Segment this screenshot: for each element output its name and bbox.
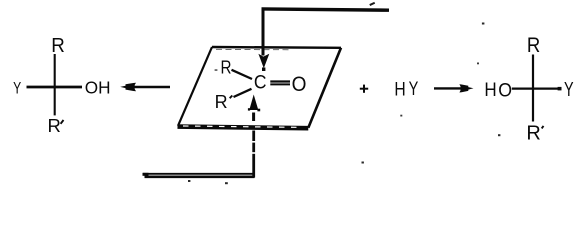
svg-text:R: R [220,57,231,78]
arrowhead base feet [248,108,250,110]
bottom attack wire left end blob [143,173,149,176]
reaction plane: under-top scan line [216,48,290,50]
right product bond C-R vertical wire [532,55,534,122]
reaction plane: bottom edge white scan dashes [183,126,303,127]
svg-text:R: R [48,115,61,136]
top attack wire horizontal [262,9,390,10]
svg-text:Y: Y [409,77,419,100]
svg-text:R: R [526,123,540,145]
reaction plane: bottom edge [178,127,309,129]
svg-text:R: R [215,92,228,112]
bottom attack arrowhead (pointing up at C) [249,95,258,111]
bond R' to C [234,89,252,97]
svg-text:C: C [254,71,267,93]
svg-text:R: R [51,34,65,57]
svg-text:H: H [394,78,405,100]
scan speck left of R [215,69,218,71]
svg-text:O: O [498,79,512,101]
svg-text:O: O [292,73,307,96]
top attack arrowhead (solid, pointing down at C) [258,54,269,68]
left product bond Y-C horizontal wire [27,86,83,89]
carbonyl double bond C=O lower line [270,83,290,85]
right product bond O-C horizontal wire [512,87,561,89]
bottom attack wire vertical [252,131,255,178]
svg-text:OH: OH [85,78,111,98]
reaction plane parallelogram: top edge [212,46,341,49]
scan tick above top wire [369,2,375,6]
svg-text:Y: Y [564,78,574,101]
bottom attack wire horizontal lower line [145,176,255,179]
bond R to C [232,70,253,79]
bottom attack wire horizontal upper line [143,173,255,175]
svg-text:H: H [484,78,496,100]
top attack wire vertical [262,8,265,56]
left product bond C-R vertical wire [54,54,56,115]
reaction plane: right edge [308,48,341,128]
left reaction arrow (pointing left) [120,83,170,92]
carbonyl double bond C=O upper line [270,80,290,82]
right reaction arrow (pointing right) [434,84,474,92]
scan speck dots [482,23,485,25]
plus sign [360,88,368,90]
right product bond end nub [558,87,562,91]
reaction plane: left edge [178,47,212,126]
svg-text:Y: Y [13,80,21,98]
svg-text:R: R [527,34,540,57]
bottom attack dashed segment [252,113,255,122]
